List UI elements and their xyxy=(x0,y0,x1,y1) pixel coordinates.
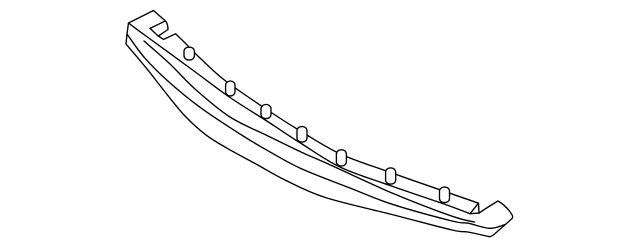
peg 6 xyxy=(386,168,396,184)
peg 4 xyxy=(297,127,307,143)
left cap notch wall xyxy=(150,28,158,36)
peg 5 xyxy=(336,150,346,166)
peg 7 xyxy=(440,187,450,203)
peg 2 xyxy=(226,81,235,96)
right end face edges xyxy=(470,203,479,214)
peg 3 xyxy=(261,105,271,119)
bar front face upper crease xyxy=(144,41,475,222)
bar front face lower crease xyxy=(127,34,505,228)
bar bottom edge xyxy=(126,44,489,237)
bar top back edge xyxy=(176,34,479,203)
right end cap outline xyxy=(479,201,513,237)
left cap flange inner edge xyxy=(150,21,165,28)
bar top front edge xyxy=(129,23,471,214)
left end cap top face outline xyxy=(126,11,176,45)
peg 1 xyxy=(184,47,194,60)
